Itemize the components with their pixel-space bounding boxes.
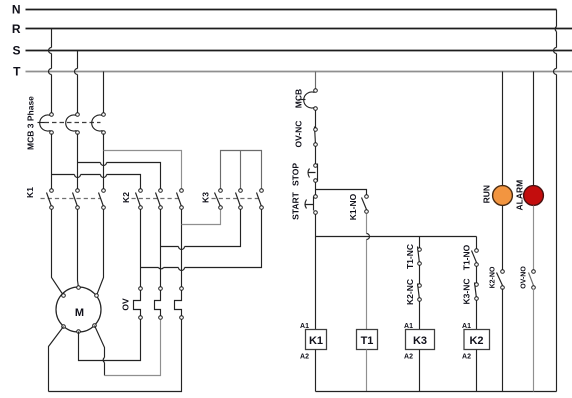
svg-text:K3: K3 [413, 335, 427, 347]
wire START down to coil K1 [315, 215, 317, 330]
contact K2-NC [418, 284, 422, 302]
svg-text:M: M [75, 307, 84, 319]
wire K1 pole 1 to motor terminal U1 [52, 210, 64, 296]
wire K2 pole 2 down to overload pole 2 [160, 210, 162, 287]
wire coil T1 to bottom bus [366, 350, 368, 392]
bus control bottom return [316, 391, 557, 393]
motor terminal V1 [77, 286, 81, 290]
svg-text:OV-NC: OV-NC [294, 121, 304, 148]
contactor K1 pole 3 [99, 189, 106, 210]
indicator lamp RUN [493, 186, 513, 206]
svg-text:STOP: STOP [291, 163, 301, 186]
contactor K3 mechanical link (dashed) [212, 198, 259, 200]
wire coil K2 to bottom bus [476, 350, 478, 392]
wire coil K3 to bottom bus [419, 350, 421, 392]
wire MCB to OV-NC [315, 111, 317, 128]
svg-text:K1-NO: K1-NO [348, 193, 358, 220]
wire RUN lamp to K2-NO [502, 206, 504, 270]
svg-text:K2-NO: K2-NO [490, 266, 497, 288]
wire K3 star-point bus [221, 151, 262, 189]
overload relay OV pole 1 element [134, 287, 143, 320]
hop wire over K2 pole 2 drop at y267 [159, 268, 164, 269]
wire rung to T1-NO branch [476, 237, 478, 249]
hop wire R over bus S [49, 48, 52, 54]
circuit breaker MCB pole 1 lever tick [38, 122, 45, 124]
wire K2-NC down to coil K3 [419, 302, 421, 330]
svg-text:S: S [12, 44, 20, 58]
svg-text:K3: K3 [201, 192, 211, 203]
hop motor W2 wire over V2 wire [103, 358, 104, 363]
bus S (phase rail) [26, 50, 572, 52]
wire phase T drop to ALARM lamp [533, 72, 535, 186]
motor terminal W1 [95, 294, 99, 298]
contactor K3 pole 1 [215, 189, 223, 210]
bus control rung [316, 236, 477, 238]
wire motor W2 to overload pole 2 bottom [105, 320, 161, 376]
indicator lamp ALARM [524, 186, 544, 206]
wire coil K1 to bottom bus [315, 350, 317, 392]
contactor K1 mechanical link (dashed) [41, 198, 101, 200]
motor terminal U2 [62, 325, 66, 329]
wire K2 pole 3 down to overload pole 3 [181, 210, 183, 287]
push button START (NO) [305, 195, 318, 215]
hop wire over K2 pole 3 drop at y267 [179, 268, 185, 271]
contactor K2 pole 1 [136, 189, 143, 210]
svg-text:A2: A2 [404, 354, 413, 361]
svg-text:START: START [291, 191, 301, 220]
svg-text:K1: K1 [309, 335, 323, 347]
contact K2-NO [497, 270, 505, 290]
bus bottom power return to overload pole 3 [49, 320, 182, 392]
wire K3-NC down to coil K2 [476, 301, 478, 330]
wire K2 pole 1 down to overload pole 1 [140, 210, 142, 287]
svg-text:N: N [12, 3, 21, 17]
contact K3-NC [475, 283, 479, 301]
wire MCB pole 3 to contactor K1 pole 3 [103, 134, 105, 189]
wire ALARM lamp to OV-NO [533, 206, 535, 270]
circuit breaker MCB (control) terminals [314, 89, 318, 93]
wire K1 pole 3 to motor terminal W1 [97, 210, 104, 296]
circuit breaker MCB pole 3 arc [92, 115, 103, 131]
wire K2 pole 3 to K3 pole 1 [182, 210, 221, 225]
contact K1-NO [362, 195, 369, 214]
svg-text:T: T [13, 65, 21, 79]
bus T (phase rail) [26, 71, 572, 73]
wire K2 pole 2 to K3 pole 2 [161, 210, 241, 247]
wire MCB pole 2 to contactor K1 pole 2 [77, 134, 79, 189]
wire feed phase T to K2 pole 3 [104, 151, 182, 189]
circuit breaker MCB (control) arc [304, 92, 315, 108]
wire motor V2 to overload pole 1 bottom [79, 320, 141, 361]
svg-text:K1: K1 [25, 187, 35, 198]
wire STOP to START [315, 183, 317, 195]
svg-text:A2: A2 [462, 354, 471, 361]
hop N return over bus S [554, 48, 557, 54]
wire T phase drop to MCB pole 3 [103, 72, 105, 113]
circuit breaker MCB pole 1 terminals [50, 113, 54, 117]
wire K1 pole 2 to motor terminal V1 [78, 210, 79, 288]
wire MCB pole 1 to contactor K1 pole 1 [51, 134, 53, 189]
hop wire over K2 pole 3 drop at y246 [179, 247, 185, 250]
svg-text:T1: T1 [361, 335, 374, 347]
svg-text:MCB: MCB [294, 89, 304, 108]
circuit breaker MCB (control) lever tick [299, 99, 306, 101]
hop N return over bus T [554, 69, 557, 75]
coil T1 [357, 330, 378, 350]
svg-text:R: R [12, 22, 21, 36]
wire R phase drop to MCB pole 1 [51, 29, 53, 113]
contact T1-NO [472, 249, 479, 267]
circuit breaker MCB pole 3 terminals [102, 113, 106, 117]
svg-text:OV-NO: OV-NO [521, 266, 528, 289]
svg-text:MCB 3 Phase: MCB 3 Phase [26, 96, 36, 150]
coil K3 [406, 330, 435, 350]
contact OV-NC [314, 127, 318, 147]
wire T1-NO to K3-NC [476, 267, 478, 283]
hop N return over bus R [555, 27, 556, 32]
motor M body [56, 287, 101, 332]
circuit breaker MCB mechanical link (dashed) [45, 122, 101, 124]
overload relay OV pole 2 element [155, 287, 163, 320]
svg-text:RUN: RUN [481, 185, 491, 203]
contactor K1 pole 1 [47, 189, 54, 210]
wire T1-NC to K2-NC [419, 266, 421, 285]
wire rung to T1-NC branch [419, 237, 421, 248]
svg-text:OV: OV [121, 298, 131, 311]
wire phase T drop to RUN lamp [502, 72, 504, 186]
hop wire S over bus T [75, 69, 78, 75]
bus R (phase rail) [26, 28, 572, 30]
svg-text:K2: K2 [469, 335, 483, 347]
contactor K2 pole 2 [156, 189, 163, 210]
motor terminal W2 [93, 324, 97, 328]
svg-text:T1-NO: T1-NO [462, 244, 472, 270]
svg-text:A2: A2 [300, 354, 309, 361]
overload relay OV pole 3 element [175, 287, 184, 320]
wire phase T drop to control MCB [315, 72, 317, 89]
push button STOP (NC) [308, 164, 318, 183]
wire feed phase R to K2 pole 1 [52, 175, 141, 189]
contact T1-NC [418, 247, 422, 266]
contactor K2 pole 3 [177, 189, 184, 210]
bus N (neutral rail) [26, 9, 557, 11]
svg-text:K2-NC: K2-NC [405, 279, 415, 305]
circuit breaker MCB pole 1 arc [40, 115, 51, 131]
wire motor U2 to bottom power bus [49, 327, 64, 392]
contactor K2 mechanical link (dashed) [132, 198, 179, 200]
motor terminal V2 [77, 330, 81, 334]
contact OV-NO [529, 270, 536, 290]
coil K1 [306, 330, 327, 350]
wire S phase drop to MCB pole 2 [77, 51, 79, 113]
motor terminal U1 [62, 294, 66, 298]
contactor K3 pole 3 [257, 189, 264, 210]
wire K2 pole 1 to K3 pole 3 [141, 210, 262, 268]
wire N return drop on right [556, 10, 558, 392]
coil K2 [464, 330, 490, 350]
svg-text:K2: K2 [121, 192, 131, 203]
circuit breaker MCB pole 2 terminals [76, 113, 80, 117]
contactor K1 pole 2 [73, 189, 80, 210]
wire OV-NO to bottom bus [533, 289, 535, 392]
wire branch STOP node to K1-NO [316, 190, 367, 195]
hop feed R over wire at x103 [101, 175, 107, 178]
hop feed S over wire at x103 [101, 163, 107, 166]
wire K2-NO to bottom bus [502, 289, 504, 392]
hop wire R over bus T [49, 69, 52, 75]
wire OV-NC to STOP [315, 147, 317, 164]
svg-text:T1-NC: T1-NC [405, 244, 415, 269]
wire motor W2 slant down [95, 326, 105, 376]
hop K1-NO wire over rung bus [367, 234, 370, 240]
circuit breaker MCB pole 2 arc [66, 115, 77, 131]
hop feed R over wire at x77 [75, 175, 81, 178]
wire K1-NO down to coil T1 [366, 214, 368, 330]
contactor K3 pole 2 [236, 189, 243, 210]
wire feed phase S to K2 pole 2 [78, 163, 161, 189]
svg-text:K3-NC: K3-NC [462, 279, 472, 305]
